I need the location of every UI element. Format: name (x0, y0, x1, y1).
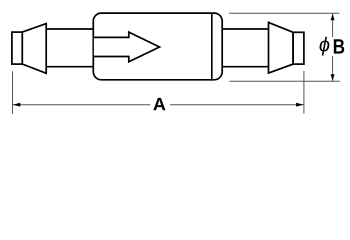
left hose barb tip (12, 32, 22, 64)
left barb cone (22, 24, 46, 74)
label A (153, 98, 165, 110)
flow arrow (94, 32, 160, 62)
valve body (93, 13, 222, 80)
right tube bottom wire (222, 66, 268, 68)
body seam line (211, 14, 213, 80)
dimension B bottom arrowhead (331, 74, 335, 81)
left tube top wire (46, 28, 93, 30)
right tube top wire (222, 28, 268, 30)
label phi B (320, 37, 330, 56)
dimension A line right segment (170, 104, 304, 106)
label B (334, 39, 344, 53)
dimension A right arrowhead (296, 103, 304, 107)
dimension B top extension line (229, 12, 340, 14)
dimension B top arrowhead (331, 14, 335, 21)
dimension A line left segment (13, 104, 151, 106)
dimension A left extension line (12, 71, 14, 113)
dimension B bottom extension line (229, 80, 340, 82)
dimension B line upper segment (332, 13, 334, 37)
dimension A left arrowhead (13, 103, 20, 107)
right hose barb tip (293, 32, 304, 64)
dimension A right extension line (303, 71, 305, 114)
right barb cone (269, 22, 294, 73)
left tube bottom wire (46, 66, 93, 68)
dimension B line lower segment (332, 56, 334, 81)
